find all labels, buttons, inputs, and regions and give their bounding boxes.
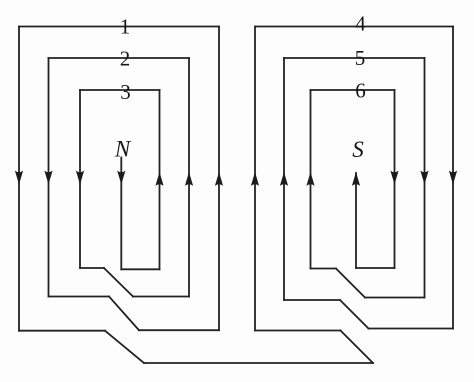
wire diagonal turn3 to turn2 [104, 268, 133, 297]
wire conductor 3 left-side vertical [79, 90, 81, 268]
svg-text:4: 4 [355, 12, 366, 36]
svg-text:6: 6 [355, 79, 366, 103]
wire hairpin bottom S [356, 267, 395, 269]
arrowhead up on S-pole lead [352, 172, 360, 186]
wire turn 6 bottom stub [311, 268, 337, 270]
wire turn 1 bottom stub [19, 330, 105, 332]
svg-text:3: 3 [120, 80, 131, 104]
wire conductor 1 left-side vertical [18, 27, 20, 331]
wire turn 6 top edge [311, 89, 395, 91]
wire conductor 4 right-side vertical [452, 27, 454, 329]
wire turn 4 top edge [255, 26, 453, 28]
arrowhead up on conductor 1 right [215, 172, 223, 186]
arrowhead down on conductor 5 right [420, 171, 428, 185]
wire turn 3 bottom stub [80, 267, 104, 269]
wire S-pole lead vertical [355, 173, 357, 268]
arrowhead down on conductor 4 right [449, 171, 457, 185]
wire turn 3 top edge [80, 89, 160, 91]
wire landing horizontal from conductor 5 [365, 297, 425, 299]
wire conductor 6 left-side vertical [310, 90, 312, 269]
wire landing horizontal to conductor 1 [139, 329, 219, 331]
wire diagonal turn4 to turn5 [340, 300, 369, 329]
arrowhead up on conductor 2 right [185, 172, 193, 186]
wire conductor 5 right-side vertical [424, 58, 426, 298]
wire conductor 5 left-side vertical [283, 58, 285, 300]
wire diagonal turn5 to turn6 [336, 269, 365, 298]
wire diagonal turn2 to turn1 [109, 297, 139, 331]
arrowhead down on conductor 2 left [44, 171, 52, 185]
wire landing horizontal from conductor 4 [369, 328, 454, 330]
arrowhead down on conductor 3 left [76, 171, 84, 185]
wire turn 5 bottom stub [284, 299, 340, 301]
wire diagonal connector to turn4 [341, 331, 374, 364]
arrowhead up on conductor 4 left [251, 172, 259, 186]
svg-text:5: 5 [355, 46, 366, 70]
arrowhead up on conductor 5 left [280, 172, 288, 186]
arrowhead up on conductor 3 right [155, 172, 163, 186]
arrowhead down on conductor 6 right [390, 171, 398, 185]
wire conductor 2 right-side vertical [188, 58, 190, 297]
arrowhead down on N-pole lead [117, 171, 125, 185]
svg-text:S: S [352, 137, 364, 162]
wire turn 4 bottom stub [255, 330, 341, 332]
wire turn 2 bottom stub [49, 296, 110, 298]
wire bottom interconnection between pole groups [144, 362, 373, 364]
wire hairpin bottom N [121, 268, 159, 270]
wire diagonal turn1 to interpole connector [105, 331, 144, 363]
wire turn 2 top edge [49, 57, 190, 59]
wire N-pole lead vertical [120, 158, 122, 270]
arrowhead up on conductor 6 left [306, 172, 314, 186]
wire turn 5 top edge [284, 57, 425, 59]
svg-text:1: 1 [120, 15, 131, 39]
svg-text:N: N [114, 137, 132, 162]
wire conductor 2 left-side vertical [48, 58, 50, 297]
wire landing horizontal to conductor 2 [133, 296, 189, 298]
wire conductor 3 right-side vertical [159, 90, 161, 269]
arrowhead down on conductor 1 left [15, 171, 23, 185]
wire conductor 4 left-side vertical [254, 27, 256, 331]
wire conductor 6 right-side vertical [394, 90, 396, 268]
svg-text:2: 2 [120, 47, 131, 71]
wire turn 1 top edge [19, 26, 219, 28]
wire conductor 1 right-side vertical [218, 27, 220, 331]
